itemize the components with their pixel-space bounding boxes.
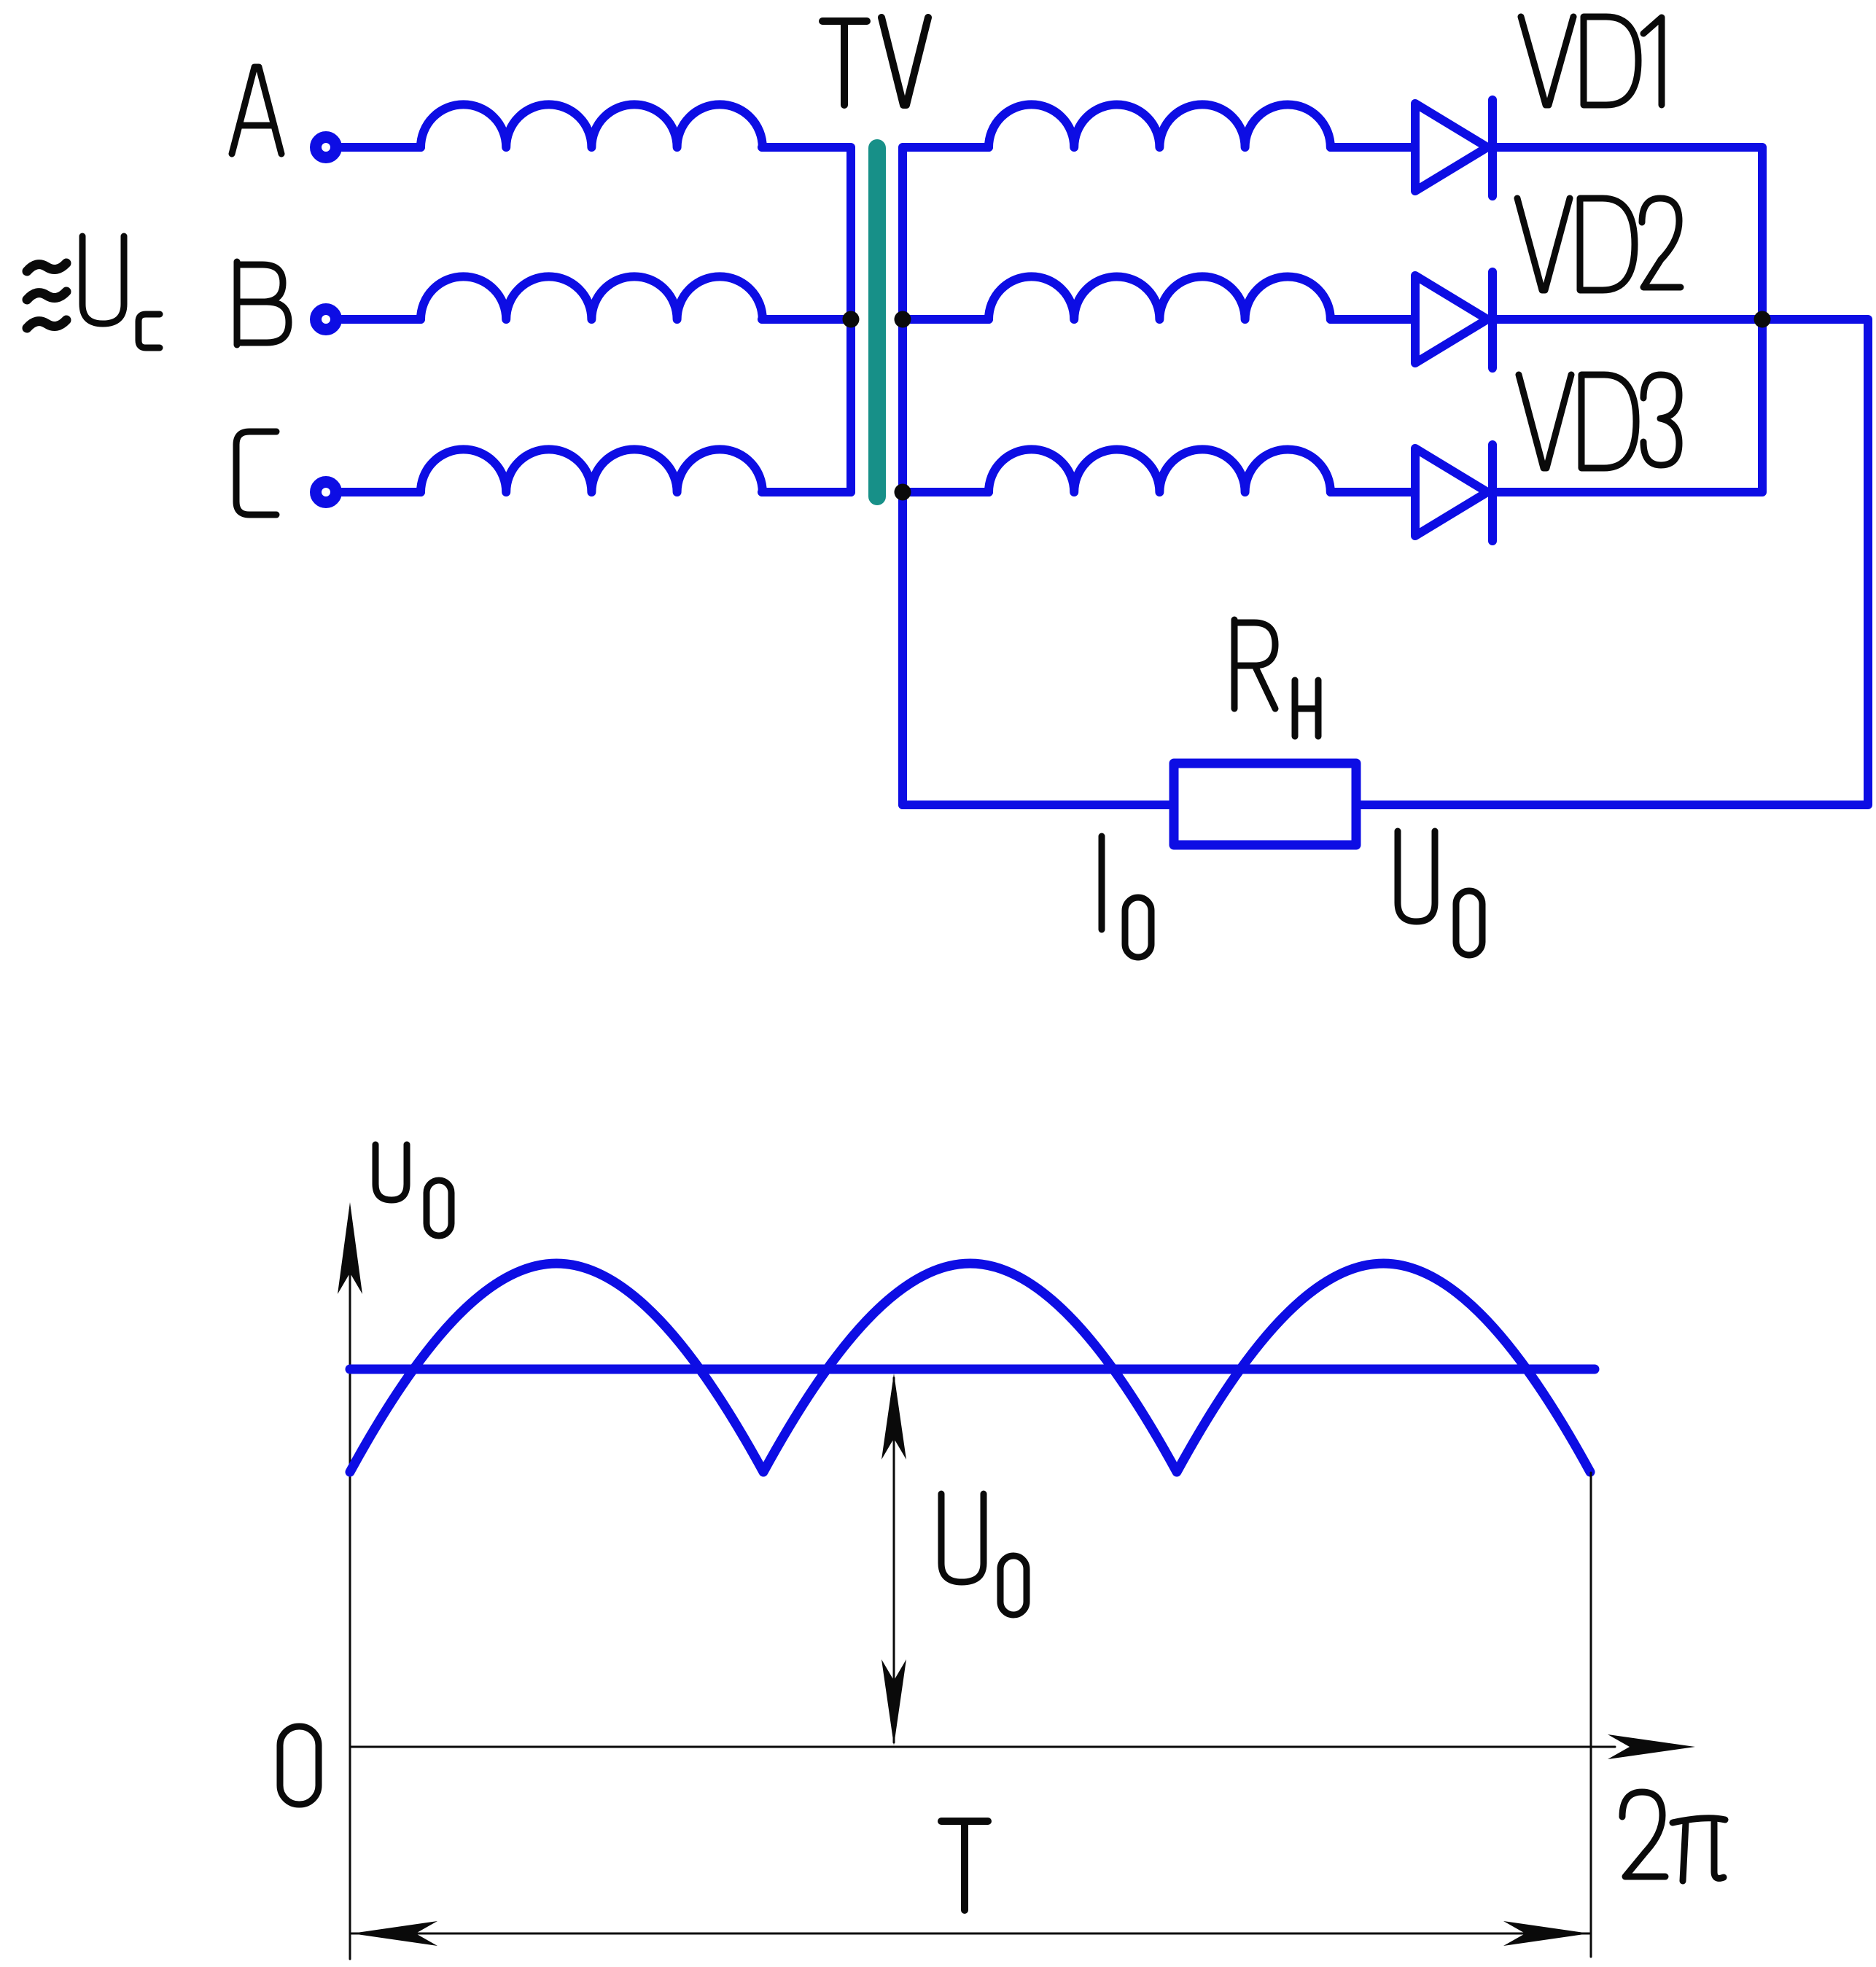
diode VD3 [1415, 445, 1492, 541]
VD2 label [1517, 198, 1681, 290]
transformer TV label [822, 17, 928, 105]
secondary bus / center tap wire [903, 147, 989, 805]
U0 dimension label [941, 1494, 1027, 1615]
wire secondary B from bus [903, 315, 989, 324]
I0 label [1102, 836, 1151, 957]
period T label [941, 1821, 988, 1910]
average U0 level line [350, 1365, 1595, 1374]
graph y-axis [349, 1210, 351, 1959]
T dimension arrow left [351, 1921, 437, 1946]
junction primary B [843, 311, 860, 328]
VD1 label [1521, 17, 1662, 105]
graph x-axis [350, 1746, 1615, 1748]
graph y-axis arrowhead [338, 1202, 362, 1294]
wire secondary C to diode VD3 [1331, 488, 1415, 496]
node C label [236, 432, 276, 515]
secondary winding C [989, 449, 1331, 492]
U0 label (load) [1398, 831, 1482, 955]
junction secondary B [895, 311, 911, 328]
primary winding B [421, 276, 763, 319]
T dimension arrow right [1503, 1921, 1589, 1946]
diode VD2 [1415, 272, 1492, 368]
U0 dimension line [893, 1378, 895, 1742]
wire bottom left to load [903, 801, 1174, 809]
wire A to primary bus [762, 147, 851, 492]
transformer core TV [868, 148, 886, 496]
secondary winding B [989, 276, 1331, 319]
RH label [1234, 620, 1318, 736]
junction secondary C / center tap [895, 484, 911, 501]
U0 dimension arrow down [881, 1659, 906, 1745]
primary winding C [421, 449, 763, 492]
wire VD1 output and cathode bus to VD3 [1496, 147, 1762, 492]
wire B to primary bus [762, 315, 851, 324]
terminal C [316, 482, 336, 502]
graph x-axis arrowhead [1608, 1734, 1695, 1759]
wire C to primary bus [762, 488, 851, 496]
AC source symbol (triple tilde) [27, 263, 66, 328]
wire C lead [342, 488, 421, 496]
primary winding A [421, 104, 763, 147]
VD3 label [1519, 375, 1679, 468]
Uc label [82, 236, 160, 348]
terminal A [316, 137, 336, 157]
diode VD1 [1415, 100, 1492, 196]
T dimension line [351, 1933, 1589, 1935]
graph u0 axis label [375, 1145, 451, 1236]
node A label [232, 67, 281, 154]
rectified output curve [350, 1263, 1590, 1472]
node B label [237, 262, 289, 345]
origin 0 label [280, 1726, 319, 1804]
wire secondary A to diode VD1 [1331, 143, 1415, 152]
2pi label [1622, 1792, 1725, 1881]
wire secondary C from bus [903, 488, 989, 496]
U0 dimension arrow up [881, 1374, 906, 1460]
wire secondary B to diode VD2 [1331, 315, 1415, 324]
resistor RH [1174, 763, 1356, 845]
wire VD2 output, right bus, bottom wire [1356, 319, 1868, 805]
2pi tick line [1590, 1473, 1592, 1957]
secondary winding A [989, 104, 1331, 147]
wire B lead [342, 315, 421, 324]
terminal B [316, 309, 336, 330]
wire A lead [342, 143, 421, 152]
junction cathode node [1754, 311, 1771, 328]
